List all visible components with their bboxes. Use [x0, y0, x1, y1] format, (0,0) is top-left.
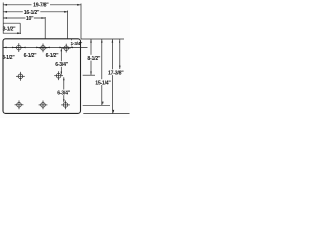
hole B3 — [61, 101, 70, 110]
hole T1 — [14, 43, 23, 52]
extension line (16-1/2) — [67, 11, 69, 40]
label 19-7/8 — [32, 2, 51, 9]
top hole row dimension chain — [3, 46, 88, 48]
label 16-1/2 — [23, 9, 41, 16]
dimension line 16-1/2 — [3, 11, 68, 13]
plate outline — [3, 39, 81, 114]
hole T3 — [62, 44, 71, 53]
label 15-1/4 — [95, 79, 113, 86]
svg-text:3-1/2": 3-1/2" — [2, 55, 15, 61]
dimension 6-3/4 upper vertical — [61, 48, 63, 74]
svg-text:1-3/4": 1-3/4" — [71, 41, 83, 47]
extension stub (3-1/2) — [19, 23, 21, 34]
svg-text:6-1/2": 6-1/2" — [46, 53, 60, 59]
top extension line right side — [81, 38, 124, 40]
label 8-1/2 — [87, 55, 101, 62]
dimension line 10 — [3, 17, 45, 19]
svg-text:10": 10" — [26, 16, 34, 22]
extension line y75 (middle row) — [83, 74, 95, 76]
svg-text:8-1/2": 8-1/2" — [87, 56, 101, 62]
dimension line 3-1/2 — [3, 32, 21, 34]
dimension line 19-7/8 — [3, 4, 81, 6]
label 17-3/8 — [108, 69, 126, 76]
hole T2 — [39, 44, 48, 53]
dimension 6-3/4 lower vertical — [63, 77, 65, 102]
svg-text:3-1/2": 3-1/2" — [3, 26, 17, 32]
dimension 15-1/4 vertical — [101, 39, 104, 105]
extension line y105 (bottom row) — [83, 104, 110, 106]
svg-text:6-1/2": 6-1/2" — [24, 53, 38, 59]
label 6-3/4 upper — [55, 61, 69, 68]
label 6-3/4 lower — [57, 90, 71, 97]
dimension 8-1/2 vertical — [90, 39, 92, 75]
extension line bottom edge — [83, 113, 129, 115]
dimension 17-3/8 vertical — [112, 39, 115, 113]
hole B1 — [15, 100, 24, 109]
extension line (10) — [44, 17, 46, 39]
label 10 — [25, 15, 34, 22]
chain arrowheads — [3, 47, 73, 49]
svg-text:6-3/4": 6-3/4" — [57, 91, 71, 97]
dimension line 4th vertical — [119, 39, 121, 69]
extension line right (19-7/8) — [80, 4, 82, 40]
short line above 3-1/2 — [3, 22, 20, 24]
dimension 1-3/4 vertical — [71, 39, 73, 46]
hole B2 — [39, 101, 48, 110]
svg-text:17-3/8": 17-3/8" — [108, 71, 124, 77]
left extension line — [2, 3, 4, 34]
label 1-3/4 — [70, 40, 82, 47]
hole M1 — [16, 72, 25, 81]
hole M2 — [54, 71, 63, 80]
svg-text:6-3/4": 6-3/4" — [55, 62, 69, 68]
svg-text:15-1/4": 15-1/4" — [95, 80, 111, 86]
svg-text:19-7/8": 19-7/8" — [33, 3, 49, 9]
